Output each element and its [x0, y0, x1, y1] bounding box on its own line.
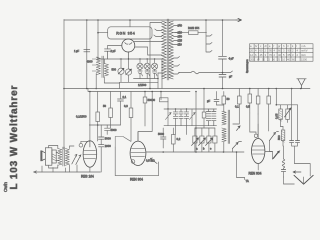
trimmer capacitor C10 — [144, 63, 150, 69]
svg-text:1500: 1500 — [301, 57, 307, 61]
svg-text:70: 70 — [269, 53, 272, 57]
svg-text:TA: TA — [246, 179, 249, 183]
loudspeaker LS — [41, 148, 56, 165]
capacitor C13 — [161, 128, 167, 148]
wire bus to v2 — [138, 92, 152, 142]
earth symbol — [294, 175, 313, 184]
capacitor C2 — [105, 49, 111, 59]
svg-text:L 103 W Weltfahrer: L 103 W Weltfahrer — [9, 85, 20, 190]
detector rail top — [164, 108, 217, 110]
svg-text:60: 60 — [292, 57, 295, 61]
transformer T1 secondary — [169, 21, 173, 79]
antenna A — [297, 79, 306, 89]
front rail lower — [120, 81, 158, 83]
transformer T1 primary — [162, 21, 166, 79]
resistor R6 — [222, 96, 226, 104]
svg-text:5000: 5000 — [158, 132, 164, 136]
wire left frame — [63, 20, 65, 150]
svg-text:0,2: 0,2 — [177, 137, 181, 141]
grid rail — [150, 151, 244, 153]
wire V2 under loop — [115, 147, 158, 176]
svg-text:b/: b/ — [255, 44, 257, 48]
svg-text:25: 25 — [277, 57, 280, 61]
resistor R8 — [248, 94, 252, 103]
capacitor C14 — [214, 92, 219, 106]
transformer tap 240 — [174, 24, 181, 26]
svg-text:60: 60 — [278, 49, 281, 53]
wire speaker to transformer — [49, 146, 58, 169]
transformer tap 150 — [174, 35, 181, 37]
svg-text:15: 15 — [267, 57, 270, 61]
band switch trimmer S2c — [207, 136, 211, 143]
coil L2 — [104, 64, 108, 77]
coil L1 — [96, 57, 100, 74]
earth arrow — [293, 171, 301, 173]
wire detector drops — [176, 126, 187, 135]
coil L1 core — [102, 56, 104, 78]
wire drop x87 — [86, 20, 88, 89]
svg-text:RES 164: RES 164 — [81, 175, 94, 179]
svg-text:Volt: Volt — [301, 53, 306, 57]
svg-text:0,5MΩ: 0,5MΩ — [146, 159, 155, 163]
trimmer arrow C15 — [285, 108, 292, 117]
wire frame to transformer — [63, 147, 65, 149]
svg-text:5000: 5000 — [105, 137, 111, 141]
transformer heater taps — [174, 57, 180, 75]
table voltage chart — [250, 44, 314, 61]
wire drop x291.5 — [291, 89, 293, 141]
wire mid rail — [89, 125, 120, 128]
svg-text:0,05: 0,05 — [275, 113, 279, 119]
wire V1 cathode — [89, 167, 91, 172]
band switch trimmer S2b — [200, 136, 204, 143]
capacitor C12 — [118, 92, 124, 126]
preset resistor R17 — [286, 109, 290, 120]
svg-text:2000: 2000 — [105, 144, 111, 148]
svg-text:mA: mA — [302, 44, 306, 48]
resistor R14 50000 — [160, 92, 162, 100]
capacitor C17 — [290, 141, 300, 143]
capacitor C20 — [99, 145, 105, 147]
resistor R13 — [282, 127, 284, 131]
svg-text:2µF: 2µF — [111, 49, 117, 53]
svg-text:50: 50 — [103, 104, 106, 108]
svg-text:40: 40 — [287, 57, 290, 61]
bus main — [64, 88, 310, 90]
wire to earth — [295, 164, 311, 177]
svg-text:10: 10 — [282, 57, 285, 61]
capacitor C16 — [105, 125, 111, 134]
trimmer arrow C25 — [190, 109, 196, 126]
capacitor C5 — [219, 75, 226, 78]
capacitor C4 4uF — [219, 56, 227, 59]
wires to V3 — [250, 113, 258, 132]
node top arrow — [236, 18, 242, 21]
front rail bottom — [134, 78, 159, 80]
svg-text:4µF: 4µF — [229, 56, 235, 60]
svg-text:0,5: 0,5 — [246, 105, 250, 109]
bus second — [88, 89, 190, 92]
trimmer capacitor C11 — [152, 63, 158, 69]
switch S3 — [233, 143, 239, 149]
svg-text:12: 12 — [250, 53, 253, 57]
wire drop x98 — [97, 20, 99, 59]
transformer primary taps — [150, 23, 162, 89]
resistor R9 — [256, 96, 260, 104]
resistor R16 — [203, 89, 205, 113]
svg-text:60: 60 — [260, 49, 263, 53]
svg-text:50: 50 — [262, 57, 265, 61]
svg-text:Spannungen: Spannungen — [246, 59, 249, 73]
oscillator coil L3 — [222, 111, 227, 125]
svg-text:110: 110 — [178, 43, 183, 47]
detector rail bottom — [164, 125, 217, 127]
wire coil to bus — [96, 74, 119, 89]
resistor R12 — [280, 105, 282, 109]
svg-text:150: 150 — [178, 35, 183, 39]
capacitor C24 — [184, 109, 188, 126]
transformer tap 125 — [174, 39, 181, 41]
svg-text:1µF: 1µF — [74, 49, 80, 53]
resistor R15 — [144, 92, 146, 98]
wire detector right — [195, 92, 197, 153]
wire top rail — [64, 19, 236, 21]
svg-text:0,1: 0,1 — [235, 105, 239, 109]
svg-text:0,1/1500: 0,1/1500 — [76, 115, 87, 119]
svg-text:µF: µF — [207, 99, 211, 103]
svg-text:REN 904: REN 904 — [130, 178, 143, 182]
wire drop x222.5 — [222, 20, 224, 89]
capacitor C23 — [179, 109, 183, 126]
resistor R7 — [238, 96, 242, 104]
svg-text:125: 125 — [178, 39, 183, 43]
switch S1 — [72, 155, 81, 165]
transformer T1 core — [167, 19, 169, 80]
svg-text:REN 904: REN 904 — [249, 172, 262, 176]
transformer tap 110 — [174, 43, 181, 45]
svg-text:20/2: 20/2 — [250, 57, 256, 61]
svg-text:95: 95 — [269, 49, 272, 53]
svg-text:65: 65 — [288, 53, 291, 57]
svg-text:0,3: 0,3 — [124, 104, 128, 108]
wire heater to node — [179, 71, 233, 74]
tube V1 RES164 — [83, 141, 97, 167]
resistor R3 — [130, 92, 132, 109]
transformer tap 220 — [174, 31, 181, 33]
wire right rail — [276, 89, 297, 105]
wire rect to transformer — [134, 42, 162, 56]
wire rect left — [108, 46, 122, 49]
svg-text:00: 00 — [272, 57, 275, 61]
svg-text:50: 50 — [227, 97, 230, 101]
resistor R5 — [172, 135, 176, 145]
coil L4 — [283, 146, 285, 159]
wire L2 top — [96, 57, 119, 63]
band switch trimmer S2d — [213, 136, 217, 143]
junction dots on bus — [268, 88, 270, 90]
output transformer T2 winding a — [58, 149, 62, 166]
svg-text:90: 90 — [288, 49, 291, 53]
wire box left — [98, 32, 108, 34]
svg-text:mA/V: mA/V — [301, 49, 308, 53]
svg-text:40: 40 — [278, 53, 281, 57]
capacitor C1 — [84, 50, 90, 52]
IF coil L7 — [212, 109, 216, 126]
variable capacitor C7 — [125, 69, 131, 75]
wire drop x297.5 — [297, 105, 299, 141]
switch S5 — [273, 151, 280, 159]
svg-text:45: 45 — [260, 53, 263, 57]
svg-text:5000: 5000 — [111, 128, 117, 132]
output transformer T2 core — [63, 147, 64, 166]
wire rail to box — [129, 20, 131, 27]
svg-text:µF: µF — [229, 75, 233, 79]
grid cap V1 — [79, 143, 83, 147]
svg-text:RGN 354: RGN 354 — [188, 26, 200, 30]
svg-text:500: 500 — [277, 135, 281, 140]
coil L3 core — [228, 110, 229, 144]
svg-text:Owin: Owin — [3, 181, 8, 192]
svg-text:20: 20 — [250, 49, 253, 53]
tube V2 REN904 — [130, 141, 146, 165]
switch S4 — [270, 133, 276, 141]
resistor R2 — [110, 92, 112, 109]
svg-text:500: 500 — [112, 68, 117, 72]
capacitor C19 — [99, 137, 105, 139]
svg-text:g/: g/ — [278, 44, 280, 48]
resistor R1 — [97, 92, 99, 113]
resistor R11 — [268, 89, 270, 97]
front rail top — [120, 59, 162, 89]
svg-text:6300: 6300 — [87, 60, 93, 64]
trimmer arrow C21 — [166, 109, 172, 126]
svg-text:50000: 50000 — [148, 98, 156, 102]
variable capacitor C6 — [118, 68, 124, 74]
IF coil L6 — [206, 109, 210, 126]
grid cap V3 — [254, 134, 257, 137]
wire rail drop — [120, 73, 158, 89]
output transformer T2 winding b — [65, 149, 69, 166]
potentiometer arrow — [151, 158, 158, 164]
rectifier tube V4 — [122, 39, 135, 52]
wire V3 grid return — [237, 152, 245, 178]
svg-text:RGN 354: RGN 354 — [116, 32, 135, 36]
svg-text:1/1500: 1/1500 — [138, 83, 147, 87]
rectifier label box — [108, 27, 152, 39]
transformer bottom tap — [158, 72, 162, 74]
bottom rail left — [34, 171, 101, 173]
svg-text:d/: d/ — [265, 44, 267, 48]
trimmer capacitor C9 — [137, 63, 143, 69]
svg-text:0,1: 0,1 — [123, 95, 127, 99]
svg-text:240: 240 — [178, 24, 183, 28]
tube V3 REN904 — [252, 139, 265, 164]
capacitor C18 — [281, 170, 285, 172]
capacitor C22 — [173, 109, 177, 126]
band switch trimmer S2a — [193, 136, 197, 143]
voltage selector plugs — [206, 20, 212, 52]
wire mid rail2 — [195, 127, 215, 129]
